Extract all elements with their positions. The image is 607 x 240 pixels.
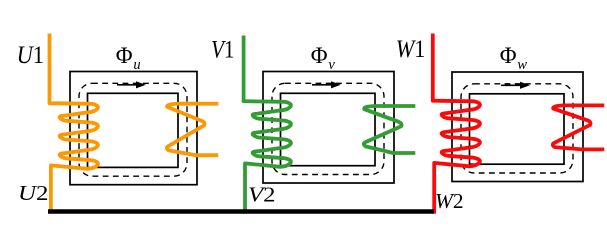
svg-text:U1: U1 — [17, 42, 44, 69]
secondary winding U with stub wires (right leg) — [167, 104, 218, 156]
svg-text:W1: W1 — [396, 36, 426, 63]
core V outer — [263, 72, 394, 184]
flux arrow u — [117, 84, 137, 86]
svg-text:Φv: Φv — [311, 43, 336, 73]
svg-text:V2: V2 — [248, 182, 276, 206]
svg-text:V1: V1 — [211, 37, 235, 64]
primary winding W1-W2 with lead wires (left leg) — [433, 34, 480, 214]
primary winding V1-V2 with lead wires (left leg) — [244, 36, 291, 214]
flux path phi_w (dashed) — [461, 84, 573, 173]
svg-text:Φu: Φu — [116, 43, 141, 73]
svg-text:U2: U2 — [18, 181, 49, 205]
svg-text:Φw: Φw — [500, 43, 528, 73]
core U inner window — [88, 93, 179, 167]
flux path phi_v (dashed) — [272, 83, 384, 174]
neutral bus wire U2-V2-W2 — [48, 209, 434, 214]
core W outer — [452, 72, 583, 182]
flux arrow v — [312, 84, 332, 86]
flux path phi_u (dashed) — [79, 83, 187, 176]
flux arrow w — [501, 84, 521, 86]
secondary winding W with stub wires (right leg) — [553, 105, 604, 149]
core V inner window — [281, 93, 376, 165]
secondary winding V with stub wires (right leg) — [364, 106, 415, 153]
primary winding U1-U2 with lead wires (left leg) — [50, 34, 98, 214]
core U outer — [70, 72, 197, 185]
core W inner window — [470, 94, 565, 164]
svg-text:W2: W2 — [435, 189, 464, 213]
